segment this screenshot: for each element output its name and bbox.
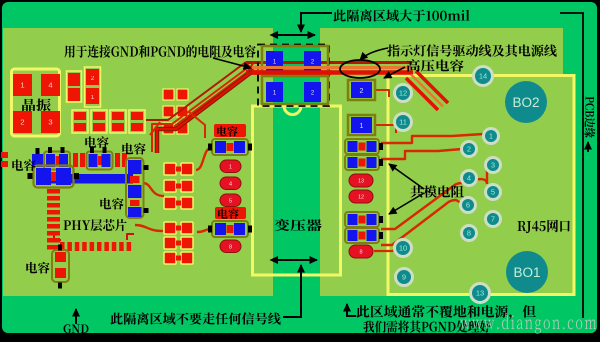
svg-text:2: 2: [360, 88, 364, 95]
svg-text:13: 13: [358, 179, 364, 185]
svg-text:8: 8: [359, 250, 362, 256]
svg-text:5: 5: [491, 188, 495, 197]
svg-text:1: 1: [229, 164, 232, 170]
svg-text:13: 13: [476, 289, 484, 298]
svg-text:10: 10: [399, 244, 407, 253]
svg-text:9: 9: [402, 273, 406, 282]
svg-text:2: 2: [20, 118, 24, 127]
svg-text:2: 2: [467, 145, 471, 154]
svg-text:BO2: BO2: [512, 95, 539, 110]
svg-text:1: 1: [20, 81, 24, 90]
svg-text:7: 7: [491, 215, 495, 224]
svg-text:11: 11: [399, 118, 407, 127]
svg-text:6: 6: [466, 201, 470, 210]
svg-text:14: 14: [479, 72, 487, 81]
svg-text:4: 4: [48, 81, 52, 90]
svg-text:1: 1: [360, 123, 364, 130]
svg-text:3: 3: [491, 161, 495, 170]
svg-text:BO1: BO1: [513, 265, 540, 280]
svg-text:12: 12: [399, 89, 407, 98]
svg-text:5: 5: [229, 198, 232, 204]
svg-text:8: 8: [467, 229, 471, 238]
svg-text:4: 4: [467, 174, 471, 183]
svg-text:3: 3: [48, 118, 52, 127]
svg-text:4: 4: [229, 181, 232, 187]
svg-text:8: 8: [229, 244, 232, 250]
svg-text:1: 1: [489, 132, 493, 141]
svg-text:12: 12: [358, 195, 364, 201]
